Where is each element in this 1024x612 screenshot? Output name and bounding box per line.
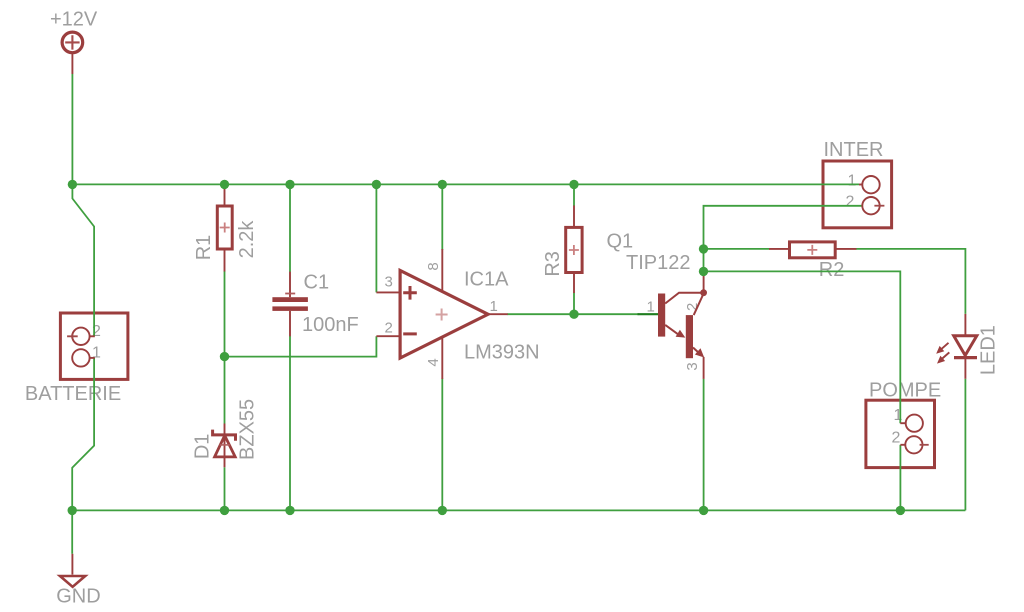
svg-text:INTER: INTER: [824, 139, 884, 161]
wire op-amp pin4 column: [441, 379, 443, 511]
capacitor C1 origin cross: [285, 293, 295, 295]
pin +12V symbol: [71, 54, 73, 75]
supply +12V circle: [62, 32, 83, 53]
svg-text:1: 1: [647, 298, 655, 315]
wire battery pin 1 to ground rail: [72, 358, 94, 511]
transistor Q1 emitter 2 arrowhead: [695, 348, 704, 357]
resistor R3 body: [566, 227, 582, 272]
op-amp IC1A triangle: [400, 271, 488, 359]
pin Q1 base (dark green overlap): [638, 313, 659, 315]
transistor Q1 inner collector diagonal: [694, 294, 704, 316]
pin R3 top: [573, 206, 575, 228]
junction dot top rail at C1: [285, 180, 294, 189]
inter pin circle 2: [862, 197, 879, 214]
transistor Q1 second base bar: [686, 315, 693, 358]
wire D1 column bottom: [224, 467, 226, 510]
svg-text:4: 4: [425, 358, 442, 366]
svg-text:IC1A: IC1A: [464, 269, 509, 291]
svg-text:2: 2: [892, 430, 901, 447]
pin op-amp 8: [441, 249, 443, 293]
svg-text:100nF: 100nF: [302, 314, 359, 336]
pin R2 left: [769, 248, 790, 250]
wire R3 column bottom: [573, 293, 575, 315]
transistor Q1 emitter 1 arrowhead: [676, 330, 686, 338]
pompe pin circle 2: [905, 436, 922, 453]
capacitor C1 bottom plate: [272, 306, 308, 311]
junction dot bottom rail at GND: [68, 506, 77, 515]
wire collector column to INTER pin 2: [704, 206, 862, 270]
svg-text:1: 1: [848, 173, 857, 190]
pin R1 top: [224, 186, 226, 206]
wire R2 row left: [704, 248, 770, 250]
svg-text:2: 2: [385, 319, 393, 336]
pin R2 right: [835, 248, 856, 250]
supply +12V plus: [65, 35, 79, 49]
wire GND drop: [71, 510, 73, 553]
wire bottom GND rail: [72, 509, 965, 511]
pin INTER 1 stub: [859, 184, 863, 186]
pompe origin cross: [920, 444, 929, 446]
op-amp origin cross: [436, 309, 448, 321]
transistor Q1 collector node dot: [700, 289, 707, 296]
wire R2 row right to LED: [856, 249, 965, 314]
LED1 emission arrow 2 head: [937, 356, 945, 364]
svg-text:+12V: +12V: [50, 8, 98, 30]
pin POMPE 2 stub: [900, 444, 906, 446]
junction dot top rail at +12V column: [68, 180, 77, 189]
junction dot bottom rail at emitter: [699, 506, 708, 515]
pin op-amp 1 output: [488, 313, 508, 315]
junction dot bottom rail at D1: [220, 506, 229, 515]
connector INTER box: [823, 161, 892, 228]
junction dot top rail at R1: [220, 180, 229, 189]
pin C1 bottom: [289, 311, 291, 336]
wire POMPE pin 2 down: [899, 445, 901, 511]
svg-text:1: 1: [490, 298, 498, 315]
junction dot bottom rail at C1: [285, 506, 294, 515]
inter origin cross: [874, 205, 884, 207]
LED1 cathode bar: [954, 356, 977, 359]
wire minus input row: [225, 336, 377, 356]
junction dot top rail at R3: [569, 180, 578, 189]
resistor R2 origin cross: [807, 245, 817, 255]
pin R1 bottom: [224, 249, 226, 272]
pin C1 top: [289, 272, 291, 298]
wire op-amp pin8 column: [441, 184, 443, 250]
transistor Q1 collector lead up: [703, 270, 705, 293]
svg-text:BZX55: BZX55: [237, 399, 259, 460]
wire op-amp plus input column: [375, 184, 377, 292]
svg-text:TIP122: TIP122: [626, 252, 690, 274]
wire top +12V rail: [72, 183, 859, 185]
transistor Q1 emitter lead down: [703, 357, 705, 379]
junction dot top rail at plus input: [372, 180, 381, 189]
wire C1 column bottom: [289, 336, 291, 510]
svg-text:2: 2: [846, 194, 855, 211]
zener diode D1 triangle: [215, 436, 236, 457]
junction dot collector column at POMPE row: [699, 267, 708, 276]
transistor Q1 collector path: [665, 293, 701, 304]
svg-text:D1: D1: [192, 434, 214, 460]
svg-text:8: 8: [425, 262, 442, 270]
junction dot top rail at pin8: [438, 180, 447, 189]
wire D1 column top: [224, 357, 226, 424]
resistor R2 body: [790, 242, 836, 258]
LED1 emission arrow 1 head: [936, 346, 944, 354]
inter pin circle 1: [862, 176, 879, 193]
svg-text:3: 3: [684, 362, 701, 370]
ground symbol triangle: [60, 576, 85, 587]
pin POMPE 1 stub: [900, 422, 906, 424]
op-amp plus input marker: [403, 286, 417, 300]
wire jog to battery pin 2: [72, 184, 94, 336]
resistor R1 body: [217, 206, 232, 249]
LED1 emission arrow 1 line: [941, 343, 949, 350]
resistor R1 origin cross: [220, 223, 230, 233]
pin op-amp 3: [376, 291, 398, 293]
pin op-amp 2: [376, 335, 398, 337]
connector POMPE box: [866, 400, 935, 467]
svg-text:GND: GND: [56, 586, 100, 608]
wire LED bottom: [964, 379, 966, 511]
svg-text:LED1: LED1: [977, 325, 999, 375]
wire R1 column bottom: [224, 271, 226, 357]
junction dot minus row at R1 column: [220, 352, 229, 361]
svg-text:R2: R2: [819, 259, 845, 281]
junction dot bottom rail at POMPE: [896, 506, 905, 515]
pin LED bottom: [964, 358, 966, 379]
transistor Q1 base bar: [658, 294, 665, 337]
svg-text:R3: R3: [542, 251, 564, 277]
connector BATTERIE box: [60, 313, 128, 379]
transistor Q1 emitter 1 line: [665, 325, 679, 335]
LED1 triangle: [954, 336, 977, 356]
transistor Q1 emitter 2 line: [693, 348, 700, 354]
svg-text:LM393N: LM393N: [464, 342, 540, 364]
wire output row: [507, 313, 638, 315]
wire Q1 emitter down: [703, 379, 705, 511]
pompe pin circle 1: [906, 415, 923, 432]
svg-text:2.2k: 2.2k: [236, 220, 258, 259]
pin BATTERIE 2 stub: [90, 335, 95, 337]
wire R1 column top: [224, 184, 226, 188]
wire C1 column top: [289, 184, 291, 272]
zener diode D1 origin cross: [220, 444, 230, 446]
op-amp minus input marker: [403, 332, 417, 335]
capacitor C1 top plate: [272, 297, 308, 302]
svg-text:C1: C1: [304, 271, 330, 293]
battery pin circle 1: [72, 349, 89, 366]
pin LED top: [964, 314, 966, 336]
wire +12V vertical: [71, 74, 73, 184]
resistor R3 origin cross: [569, 245, 579, 255]
pin op-amp 4: [441, 336, 443, 379]
battery origin cross: [67, 334, 78, 339]
svg-text:BATTERIE: BATTERIE: [25, 383, 121, 405]
svg-text:3: 3: [385, 274, 393, 291]
wire R3 column top: [573, 184, 575, 206]
LED1 emission arrow 2 line: [941, 352, 949, 359]
junction dot bottom rail at pin4: [438, 506, 447, 515]
junction dot collector column at R2 row: [699, 244, 708, 253]
svg-text:R1: R1: [193, 235, 215, 261]
svg-text:POMPE: POMPE: [869, 379, 941, 401]
pin BATTERIE 1 stub: [90, 357, 95, 359]
wire POMPE row: [704, 271, 901, 423]
pin GND symbol: [71, 554, 73, 575]
battery pin circle 2: [72, 328, 89, 345]
pin R3 bottom: [573, 273, 575, 294]
pin D1 through: [224, 424, 226, 468]
junction dot output row at R3 bottom: [569, 310, 578, 319]
svg-text:Q1: Q1: [607, 230, 634, 252]
zener diode D1 cathode bar: [213, 430, 236, 441]
